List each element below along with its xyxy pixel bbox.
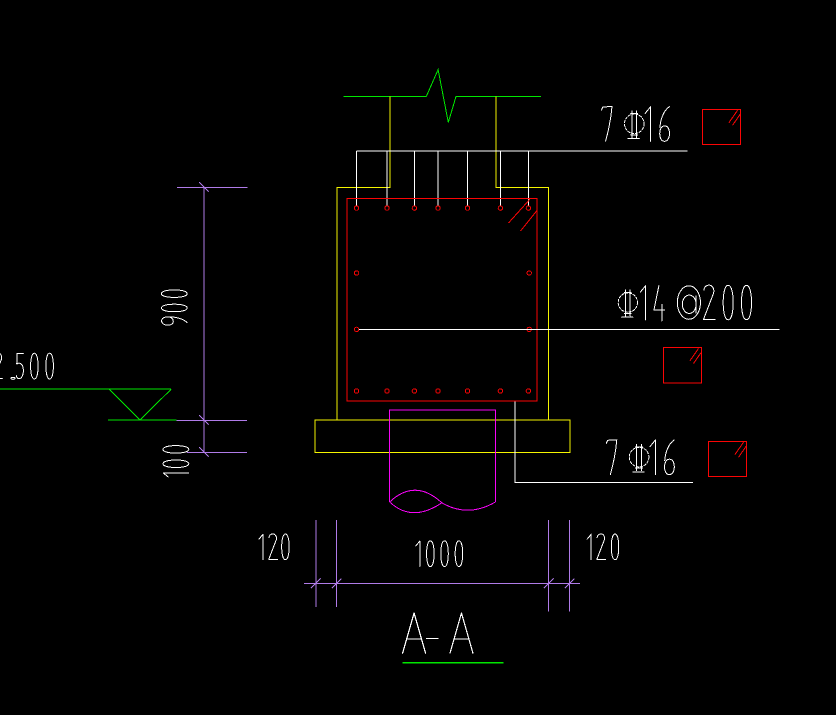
- level line (green): [0, 388, 171, 390]
- column outline right (yellow): [496, 97, 549, 421]
- dimension line vertical 900/100: [203, 187, 205, 452]
- footing outline (yellow): [315, 420, 570, 452]
- tick h1: [311, 579, 321, 589]
- text 1000: [416, 541, 420, 567]
- tick mid: [199, 415, 209, 425]
- tick h3: [544, 579, 554, 589]
- tick h2: [332, 579, 342, 589]
- level triangle (green): [109, 389, 171, 420]
- stirrup outline (red): [347, 198, 537, 401]
- detail square bottom (red): [709, 441, 747, 476]
- extension line v4: [569, 520, 571, 611]
- leader line top 7-phi-16: [357, 150, 688, 152]
- tick h4: [565, 579, 575, 589]
- rebar dots top row (7): [354, 206, 358, 210]
- text 7 phi 16 (top): [602, 106, 613, 141]
- rebar extension lines (7 verticals): [356, 151, 358, 205]
- extension line v1: [315, 520, 317, 607]
- extension line mid: [177, 419, 248, 421]
- tick top: [199, 182, 209, 192]
- text phi14 at 200: [618, 293, 637, 312]
- title A-A: [403, 613, 426, 653]
- pile outline (magenta): [390, 410, 496, 502]
- text 100 (rotated): [163, 473, 189, 477]
- extension line v2: [336, 520, 338, 607]
- column outline left (yellow): [337, 97, 390, 421]
- leader line bottom 7-phi-16: [515, 402, 693, 483]
- pile break wave (magenta): [390, 490, 442, 503]
- text 2.500 level value: [0, 353, 3, 379]
- extension line v3: [548, 520, 550, 611]
- rebar dots sides: [354, 271, 358, 275]
- title underline (green): [402, 662, 503, 664]
- text 120 left: [259, 534, 263, 559]
- wire green column break line: [344, 70, 541, 123]
- stirrup corner hatch: [509, 199, 531, 223]
- dimension line horizontal 120/1000/120: [304, 582, 580, 584]
- detail square top (red): [703, 109, 741, 144]
- text 120 right: [587, 534, 591, 559]
- extension line bottom: [187, 451, 247, 453]
- text 7 phi 16 (bottom): [606, 440, 617, 475]
- detail square middle (red): [664, 348, 702, 384]
- rebar dots bottom row (7): [354, 389, 358, 393]
- extension line top: [177, 186, 248, 188]
- leader line phi14-at-200: [359, 328, 780, 330]
- level base line (green): [108, 419, 176, 421]
- tick bottom: [199, 447, 209, 457]
- text 900 (rotated): [162, 317, 174, 325]
